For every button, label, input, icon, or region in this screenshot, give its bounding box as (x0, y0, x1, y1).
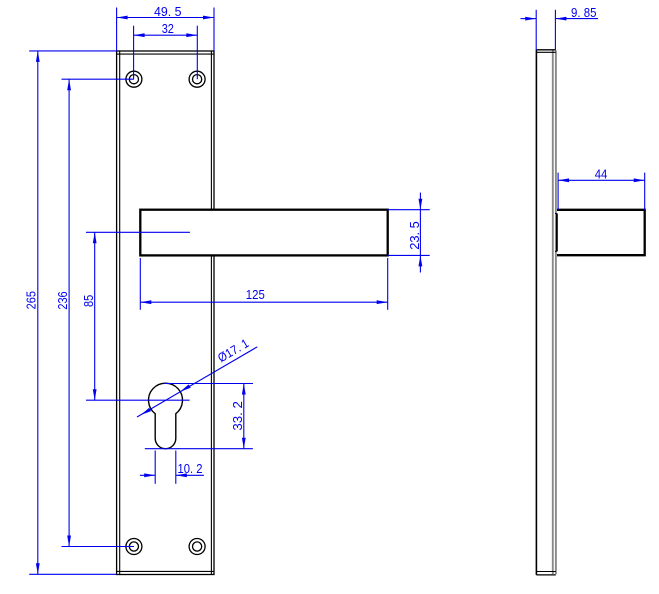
svg-text:10. 2: 10. 2 (178, 462, 203, 476)
svg-text:125: 125 (246, 288, 265, 302)
svg-text:49. 5: 49. 5 (154, 5, 182, 19)
dimension 265 overall height (25, 51, 117, 574)
svg-text:44: 44 (595, 168, 608, 182)
screw hole top-left (126, 71, 142, 87)
side plate outline (536, 50, 556, 575)
front plate outer outline (117, 51, 214, 575)
dimension 23.5 lever width (388, 193, 430, 273)
dimension 49.5 top width (117, 5, 214, 51)
dimension 10.2 slot width (140, 451, 204, 484)
svg-text:32: 32 (162, 22, 174, 36)
dimension 125 lever length (140, 258, 387, 310)
svg-text:236: 236 (56, 291, 70, 309)
dimension 85 lever to keyhole (82, 232, 190, 400)
screw hole top-right (189, 71, 205, 87)
svg-text:33. 2: 33. 2 (231, 401, 245, 431)
dimension 9.85 plate thickness (521, 6, 599, 50)
dimension diameter 17.1 keyhole leader (137, 336, 257, 417)
front plate inner chamfer lines (117, 51, 214, 575)
dimension 32 hole spacing (134, 22, 198, 79)
screw hole bottom-right (189, 539, 205, 555)
screw hole bottom-left (126, 539, 142, 555)
dimension 33.2 keyhole height (145, 384, 253, 449)
svg-text:9. 85: 9. 85 (571, 6, 597, 20)
dimension 236 hole to hole height (56, 79, 134, 546)
lever handle cross-section (side view) (555, 210, 645, 255)
lever handle bar (front view) (140, 210, 387, 256)
dimension 44 handle depth (558, 168, 645, 210)
svg-text:23. 5: 23. 5 (408, 221, 422, 250)
keyhole euro cylinder cutout (149, 383, 183, 449)
svg-text:85: 85 (82, 295, 96, 307)
svg-text:265: 265 (25, 291, 39, 309)
